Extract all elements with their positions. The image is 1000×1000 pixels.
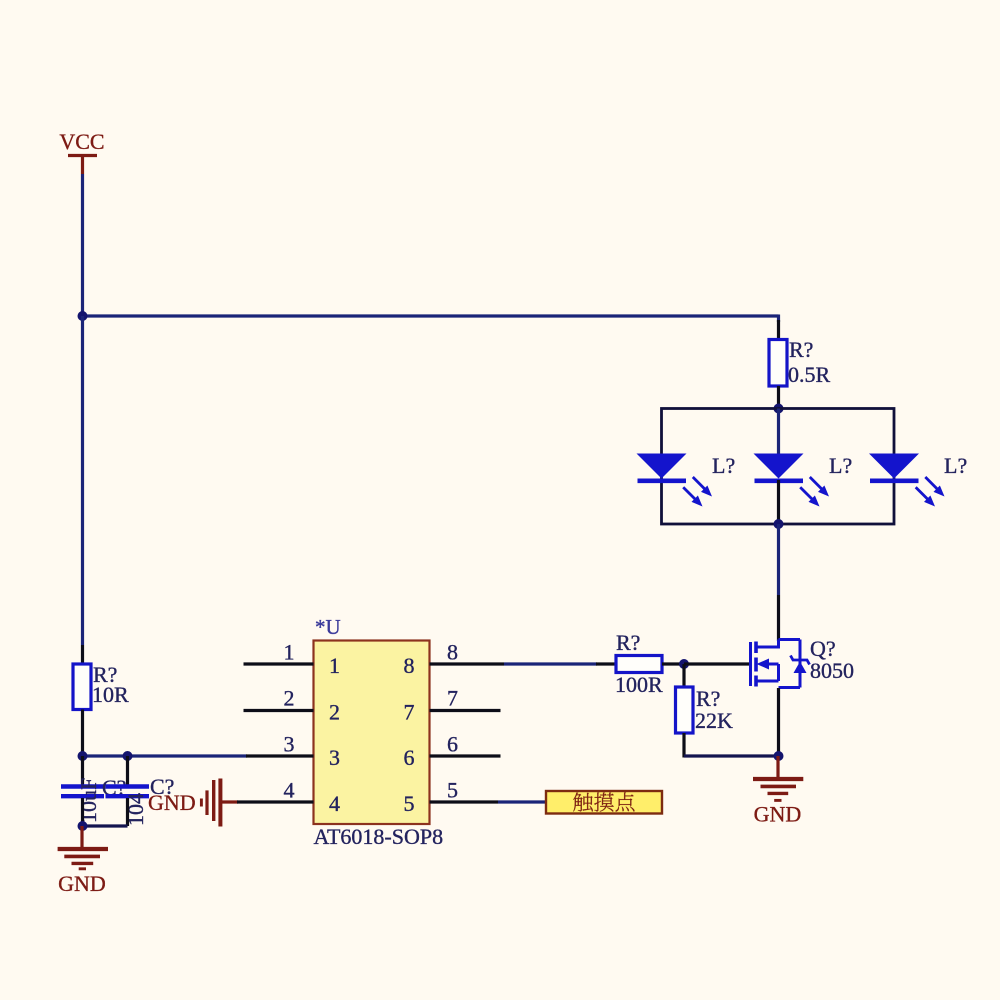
junction node LED top — [774, 404, 784, 414]
capacitor C2 104 — [106, 774, 175, 826]
wire VCC horizontal top — [81, 314, 779, 317]
wire node row to pin3 — [83, 754, 248, 757]
svg-text:4: 4 — [284, 778, 295, 803]
svg-text:AT6018-SOP8: AT6018-SOP8 — [314, 824, 444, 849]
pin R2 left — [596, 662, 616, 665]
svg-text:L?: L? — [712, 453, 735, 478]
svg-text:2: 2 — [284, 686, 295, 711]
svg-text:10R: 10R — [92, 682, 129, 707]
pin C2 bottom — [126, 798, 129, 826]
svg-text:6: 6 — [447, 732, 458, 757]
pin R3 top — [682, 664, 685, 688]
pin R4 top — [81, 645, 84, 665]
svg-text:8: 8 — [447, 640, 458, 665]
resistor R4 10R — [73, 662, 129, 710]
wire LED2 anode — [777, 409, 780, 454]
pin 3 — [246, 754, 314, 757]
pin C1 bottom — [81, 798, 84, 826]
pin R1 bottom — [777, 386, 780, 404]
svg-text:10uF: 10uF — [76, 778, 101, 823]
resistor R3 22K — [676, 686, 734, 733]
pin Q1 drain — [777, 595, 780, 641]
pin 7 — [430, 709, 501, 712]
ground GND pin4 (rotated) — [148, 779, 238, 827]
pin 1 — [244, 662, 314, 665]
LED module box — [662, 409, 895, 525]
wire left rail down — [81, 316, 84, 645]
pin C1 top — [81, 756, 84, 785]
svg-text:R?: R? — [616, 630, 640, 655]
power port VCC — [59, 129, 104, 174]
svg-text:L?: L? — [829, 453, 852, 478]
svg-text:1: 1 — [284, 640, 295, 665]
svg-text:100R: 100R — [615, 672, 663, 697]
ground GND right — [753, 756, 803, 827]
pin 6 — [430, 754, 501, 757]
junction node C1 — [78, 751, 88, 761]
svg-text:3: 3 — [284, 732, 295, 757]
wire LED bottom to drain — [777, 524, 780, 595]
svg-text:VCC: VCC — [59, 129, 104, 154]
touch pad label box — [546, 791, 662, 814]
svg-text:8050: 8050 — [810, 658, 854, 683]
pin C2 top — [126, 756, 129, 785]
wire pin5 to touch pad — [498, 800, 546, 803]
svg-text:GND: GND — [754, 802, 802, 827]
svg-text:GND: GND — [58, 871, 106, 896]
junction node LED bottom — [774, 519, 784, 529]
svg-text:7: 7 — [404, 700, 415, 725]
label touch-point text 触摸点 — [573, 792, 634, 811]
wire C2 bottom to C1 node — [83, 824, 128, 827]
wire VCC vertical left rail — [81, 174, 84, 316]
pin 5 — [430, 800, 499, 803]
svg-text:4: 4 — [329, 791, 340, 816]
svg-text:8: 8 — [404, 653, 415, 678]
transistor Q1 8050 — [751, 640, 810, 688]
LED D1 — [637, 454, 713, 507]
LED D3 — [869, 454, 945, 507]
resistor R2 100R — [615, 630, 663, 697]
svg-text:6: 6 — [404, 745, 415, 770]
svg-text:22K: 22K — [695, 708, 733, 733]
LED D2 — [754, 454, 830, 507]
svg-text:L?: L? — [944, 453, 967, 478]
pin LED2 cathode — [777, 480, 780, 524]
svg-text:0.5R: 0.5R — [788, 362, 831, 387]
svg-text:5: 5 — [447, 778, 458, 803]
wire pin8 to R2 — [504, 662, 597, 665]
pin 2 — [244, 709, 314, 712]
junction node GND left — [78, 821, 88, 831]
wire R3 to source node — [684, 754, 779, 757]
pin R4 bottom — [81, 710, 84, 757]
svg-text:7: 7 — [447, 686, 458, 711]
pin R2 right — [662, 662, 684, 665]
svg-text:GND: GND — [148, 790, 196, 815]
capacitor C1 10uF — [61, 775, 126, 823]
pin R1 top — [777, 320, 780, 340]
svg-text:R?: R? — [789, 337, 813, 362]
pin 4 — [237, 800, 314, 803]
svg-text:3: 3 — [329, 745, 340, 770]
pin 8 — [430, 662, 505, 665]
svg-text:2: 2 — [329, 700, 340, 725]
svg-text:1: 1 — [329, 653, 340, 678]
junction node gate — [679, 659, 689, 669]
junction node source/GND — [774, 751, 784, 761]
resistor R1 0.5R — [769, 337, 831, 387]
ground GND left — [58, 826, 108, 896]
pin Q1 source — [777, 688, 780, 756]
svg-text:*U: *U — [315, 615, 341, 639]
svg-text:5: 5 — [404, 791, 415, 816]
wire top-right corner down — [777, 315, 780, 323]
IC U1 AT6018-SOP8 — [314, 615, 444, 849]
junction node VCC/left-rail — [78, 311, 88, 321]
junction node C2 — [123, 751, 133, 761]
wire gate — [684, 662, 749, 665]
pin R3 bottom — [682, 733, 685, 758]
